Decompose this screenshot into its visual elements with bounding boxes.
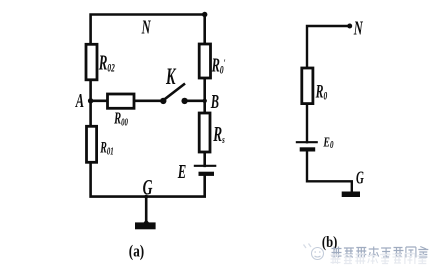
- svg-text:N: N: [353, 16, 363, 39]
- svg-text:R0′: R0′: [211, 53, 226, 77]
- svg-text:A: A: [75, 89, 84, 112]
- svg-text:R00: R00: [113, 109, 128, 128]
- svg-text:Rs: Rs: [212, 122, 225, 146]
- svg-text:K: K: [165, 65, 176, 90]
- svg-text:G: G: [356, 169, 364, 188]
- svg-text:(a): (a): [129, 241, 144, 260]
- svg-text:R0: R0: [315, 82, 327, 103]
- svg-text:G: G: [143, 175, 153, 199]
- svg-text:E0: E0: [323, 134, 334, 151]
- svg-text:N: N: [141, 15, 151, 38]
- svg-text:B: B: [210, 90, 219, 113]
- svg-text:E: E: [177, 160, 186, 183]
- svg-text:R02: R02: [98, 50, 115, 75]
- svg-text:R01: R01: [99, 138, 113, 157]
